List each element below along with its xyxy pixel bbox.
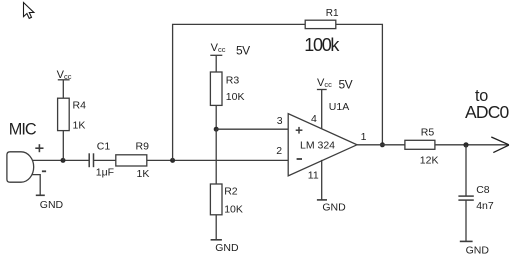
svg-text:GND: GND [40,199,64,211]
svg-text:C8: C8 [476,184,490,196]
svg-text:C1: C1 [97,140,111,152]
svg-text:12K: 12K [420,154,439,166]
junction: bias divider node [214,127,219,132]
output port arrow to ADC0 [491,137,509,145]
op-amp U1A triangle [288,114,357,176]
svg-text:4n7: 4n7 [476,200,494,212]
svg-text:5V: 5V [339,78,353,92]
wire R5 to output port [435,144,509,146]
ground (C8) [460,240,473,242]
svg-text:5V: 5V [236,44,250,58]
svg-text:2: 2 [276,145,282,157]
ground (R2) [211,239,222,241]
svg-text:R9: R9 [136,140,150,152]
junction: output / feedback [380,142,385,147]
wire bias node to R2 (crosses signal wire, no connection) [215,129,217,184]
svg-text:1: 1 [361,131,367,143]
wire R3 to bias node [215,105,217,129]
svg-text:ADC0: ADC0 [465,102,510,122]
svg-text:10K: 10K [224,203,243,215]
wire C1 to R9 [94,159,116,161]
svg-text:10K: 10K [226,91,245,103]
resistor R9 [116,155,147,166]
svg-text:R4: R4 [73,99,87,111]
wire R2 to ground [215,215,217,240]
resistor R3 [210,72,222,105]
op-amp inverting input marker [297,158,302,160]
junction: R5 / C8 node [463,142,468,147]
mic minus terminal [42,170,46,172]
mouse cursor [24,3,34,19]
svg-text:1μF: 1μF [96,167,114,179]
svg-text:4: 4 [311,113,317,125]
wire op-amp output to R5 [357,144,405,146]
svg-text:GND: GND [466,244,490,256]
junction: mic / R4 / C1 node [61,158,66,163]
svg-text:GND: GND [215,242,239,254]
svg-text:U1A: U1A [329,101,349,113]
ground (op-amp) [317,199,327,201]
svg-text:LM 324: LM 324 [300,140,335,152]
svg-text:R5: R5 [421,126,435,138]
wire mic to C1 [32,159,89,161]
svg-text:R3: R3 [226,74,240,86]
op-amp non-inverting input marker [296,129,303,131]
microphone MIC body [7,152,34,182]
wire op-amp pin 11 to ground [321,160,323,200]
ground (mic) [36,194,45,196]
svg-text:1K: 1K [137,168,150,180]
wire bias node to op-amp pin 3 [216,128,288,130]
junction: feedback node [170,158,175,163]
wire R9 to op-amp pin 2 [147,159,288,161]
capacitor C8 [458,195,473,197]
svg-text:1K: 1K [73,120,86,132]
resistor R4 [58,98,70,130]
svg-text:R1: R1 [326,8,339,19]
resistor R2 [210,184,222,215]
wire feedback left side [173,24,306,160]
wire R4 to signal node [62,131,64,161]
capacitor C1 [88,153,90,167]
wire output node to C8 [465,145,467,196]
resistor R1 [305,20,336,28]
svg-text:11: 11 [308,170,319,182]
mic plus terminal [35,147,43,149]
svg-text:3: 3 [277,115,283,127]
wire C8 to ground [465,200,467,241]
wire mic minus to ground [32,175,40,196]
svg-text:MIC: MIC [9,121,37,139]
wire feedback right side [336,24,383,144]
resistor R5 [405,140,435,149]
svg-text:GND: GND [322,201,346,213]
svg-text:100k: 100k [304,35,340,55]
svg-text:R2: R2 [224,185,238,197]
